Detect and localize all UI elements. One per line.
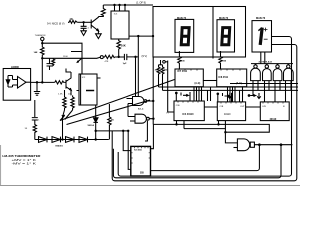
svg-text:-MV = 1° K: -MV = 1° K — [12, 163, 37, 166]
svg-text:47K: 47K — [105, 61, 109, 63]
svg-text:THERM IN: THERM IN — [35, 35, 46, 37]
svg-text:40110: 40110 — [224, 113, 231, 116]
svg-text:1N914: 1N914 — [87, 124, 94, 127]
svg-text:5K: 5K — [111, 120, 114, 122]
svg-text:MAN 73: MAN 73 — [256, 17, 266, 20]
svg-text:40110: 40110 — [270, 118, 277, 121]
svg-text:IC4 40110: IC4 40110 — [183, 113, 195, 116]
svg-text:9-V NICD (9 V): 9-V NICD (9 V) — [47, 21, 65, 25]
svg-text:(9 V): (9 V) — [142, 54, 148, 58]
svg-text:1100: 1100 — [63, 56, 68, 58]
svg-text:14K: 14K — [34, 51, 38, 54]
svg-text:1K: 1K — [70, 17, 73, 21]
svg-text:4 X MPS-A13: 4 X MPS-A13 — [259, 60, 273, 63]
svg-text:(A-G): (A-G) — [195, 82, 201, 85]
svg-text:IC8 4511: IC8 4511 — [219, 76, 229, 79]
svg-text:LM-335 THERMOMETER: LM-335 THERMOMETER — [2, 154, 40, 158]
svg-text:10K: 10K — [68, 94, 72, 96]
svg-text:10K: 10K — [121, 44, 126, 48]
svg-text:C/B: C/B — [220, 106, 224, 108]
svg-text:C/B: C/B — [176, 105, 180, 107]
svg-text:1µF: 1µF — [123, 63, 127, 65]
svg-text:1.5K: 1.5K — [58, 94, 63, 96]
svg-text:+MV = 1° K: +MV = 1° K — [12, 159, 37, 162]
svg-text:MAN 72: MAN 72 — [219, 17, 229, 20]
svg-text:1N4001: 1N4001 — [55, 145, 63, 148]
svg-text:C/B: C/B — [262, 106, 266, 108]
svg-text:LM308: LM308 — [11, 66, 19, 69]
svg-text:(1 OF 9): (1 OF 9) — [136, 1, 146, 5]
svg-text:IC5 555: IC5 555 — [134, 150, 142, 152]
svg-text:OUT: OUT — [240, 106, 245, 108]
svg-text:MAN 72: MAN 72 — [177, 17, 187, 20]
svg-text:IC1-b: IC1-b — [138, 109, 144, 111]
